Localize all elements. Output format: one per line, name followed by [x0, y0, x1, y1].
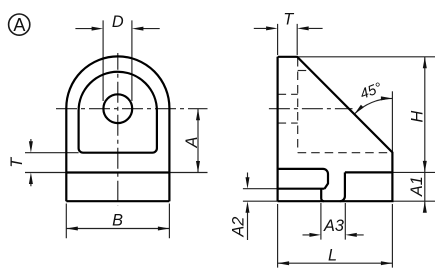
side view outline: wall, top, diagonal gusset, right edge, bottom	[278, 57, 393, 201]
base top surface left of groove with lip	[278, 169, 328, 189]
inner dome outline (front view)	[79, 72, 157, 153]
A dimension extension line (base top extended right)	[169, 172, 207, 174]
base top edge (front view)	[66, 171, 169, 173]
hidden edge inner dome top	[298, 70, 311, 72]
centerline vertical (front view)	[117, 53, 119, 206]
outer dome outline (front view)	[66, 56, 169, 201]
dimension D dimension line with arrows	[75, 28, 159, 30]
svg-text:H: H	[409, 110, 427, 122]
base top surface right of groove	[345, 171, 393, 173]
svg-text:A3: A3	[323, 217, 344, 235]
B dimension extension lines	[66, 204, 169, 239]
groove right wall	[340, 172, 345, 201]
L extension lines	[278, 204, 393, 268]
H / A1 dimension line	[424, 57, 426, 213]
H arrows	[423, 57, 427, 213]
svg-text:A2: A2	[229, 217, 247, 238]
dimension D extension lines	[103, 20, 132, 101]
A3 dimension line with arrows	[303, 234, 364, 236]
view label circle A	[9, 14, 30, 35]
svg-text:A1: A1	[408, 176, 426, 197]
svg-text:T: T	[8, 157, 26, 168]
A2 dimension line and arrows	[247, 173, 249, 241]
svg-text:D: D	[112, 13, 124, 31]
45 degree dimension arc	[354, 98, 392, 114]
bottom edge (front view)	[66, 200, 169, 202]
bottom recess edge	[278, 188, 325, 190]
svg-text:B: B	[112, 211, 123, 229]
H extension line top	[297, 56, 435, 58]
svg-text:L: L	[328, 246, 337, 264]
A1/H extension line bottom	[392, 200, 435, 202]
A dimension line with arrows	[197, 109, 199, 173]
centerline horizontal (side view)	[269, 108, 353, 110]
A3 extension lines	[321, 203, 345, 240]
hidden edge base top behind gusset	[298, 152, 393, 154]
hidden hole bottom edge	[278, 122, 298, 124]
A1 extension line top (base top right extended)	[392, 171, 435, 173]
45 degree reference vertical extension	[391, 91, 393, 152]
A2 extension lines	[243, 189, 278, 202]
groove left wall	[321, 189, 324, 202]
centerline horizontal (front view)	[56, 108, 208, 110]
hidden edge vertical (wall back face)	[297, 58, 299, 153]
svg-text:T: T	[283, 10, 294, 28]
45 degree arc arrows	[354, 96, 392, 114]
T dimension (front view) arrows	[30, 139, 32, 186]
L dimension line with arrows	[278, 262, 393, 264]
B dimension line with arrows	[66, 228, 169, 230]
T dimension (side view) dimension line with arrows	[254, 27, 323, 29]
T dimension (side view) extension lines	[278, 24, 298, 55]
T dimension (front view) extension lines	[25, 153, 79, 173]
svg-text:A: A	[183, 137, 201, 149]
svg-text:A: A	[13, 15, 25, 35]
hole circle (front view)	[103, 94, 132, 123]
hidden hole top edge	[278, 93, 298, 95]
